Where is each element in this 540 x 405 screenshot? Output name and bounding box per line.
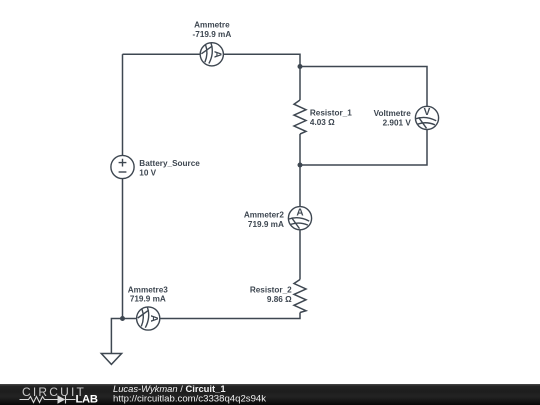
battery source V1 labels	[139, 159, 200, 178]
svg-text:A: A	[148, 315, 159, 322]
node junction top	[298, 64, 303, 69]
svg-text:4.03 Ω: 4.03 Ω	[310, 118, 335, 127]
footer logo icon wire-resistor-diode	[20, 396, 76, 404]
resistor R2 Resistor_2	[294, 280, 306, 313]
ammeter AM2 symbol	[288, 207, 311, 230]
node junction mid	[298, 163, 303, 168]
wire top-right horizontal	[224, 53, 301, 55]
svg-text:9.86 Ω: 9.86 Ω	[267, 295, 292, 304]
svg-text:http://circuitlab.com/c3338q4q: http://circuitlab.com/c3338q4q2s94k	[113, 394, 266, 405]
svg-text:10 V: 10 V	[139, 169, 156, 178]
voltmeter VM1 symbol	[415, 106, 438, 129]
battery source V1 symbol	[111, 155, 134, 178]
footer bar	[0, 384, 540, 405]
wire battery left vertical top	[122, 54, 124, 155]
footer logo diode triangle	[58, 395, 66, 403]
svg-text:Ammeter2: Ammeter2	[244, 211, 284, 220]
svg-text:Ammetre3: Ammetre3	[128, 285, 168, 294]
wire battery left vertical bottom	[122, 179, 124, 319]
wire branch to voltmeter top	[300, 67, 427, 107]
svg-text:A: A	[296, 208, 303, 219]
svg-text:2.901 V: 2.901 V	[383, 119, 412, 128]
svg-text:A: A	[212, 51, 223, 58]
svg-text:Ammetre: Ammetre	[194, 21, 230, 30]
svg-text:719.9 mA: 719.9 mA	[248, 220, 284, 229]
wire to ground	[111, 319, 122, 354]
svg-text:Voltmetre: Voltmetre	[374, 109, 412, 118]
ammeter AM1 labels	[193, 21, 232, 39]
svg-text:-719.9 mA: -719.9 mA	[193, 30, 232, 39]
wire voltmeter bottom	[300, 130, 427, 165]
wire top-left horizontal	[123, 53, 201, 55]
resistor R2 labels	[250, 286, 292, 304]
ammeter AM1 symbol	[200, 43, 223, 66]
ammeter AM3 symbol	[137, 307, 160, 330]
ammeter AM3 labels	[128, 285, 168, 303]
wire resistor2 bottom corner	[160, 313, 300, 319]
svg-text:Lucas-Wykman / Circuit_1: Lucas-Wykman / Circuit_1	[113, 383, 226, 394]
wire ammetre3 to junction	[123, 318, 137, 320]
svg-text:Resistor_1: Resistor_1	[310, 109, 352, 118]
wire ammeter2 to resistor2	[299, 230, 301, 280]
wire resistor1 to ammeter2	[299, 134, 301, 207]
wire top-right corner down	[299, 54, 301, 101]
node junction bottom-left	[120, 316, 125, 321]
svg-text:LAB: LAB	[76, 393, 98, 405]
svg-text:Resistor_2: Resistor_2	[250, 286, 292, 295]
resistor R1 labels	[310, 109, 352, 127]
resistor R1 Resistor_1	[294, 100, 306, 134]
voltmeter VM1 labels	[374, 109, 412, 128]
svg-text:719.9 mA: 719.9 mA	[130, 295, 166, 304]
svg-text:Battery_Source: Battery_Source	[139, 159, 200, 168]
ammeter AM2 labels	[244, 211, 284, 229]
ground	[101, 354, 121, 365]
svg-text:V: V	[424, 107, 431, 118]
